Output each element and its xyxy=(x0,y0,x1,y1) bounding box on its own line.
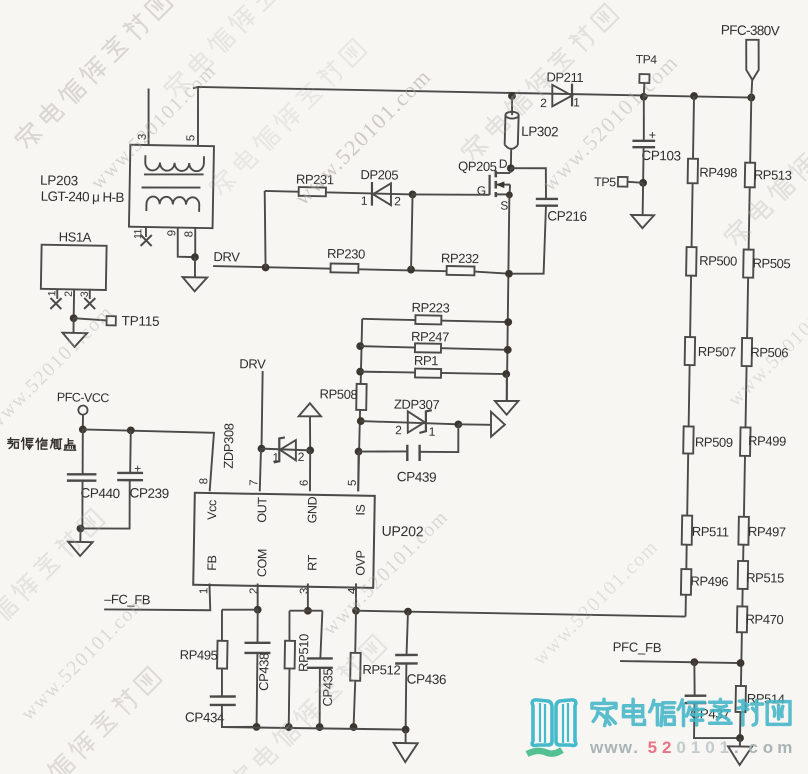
pin 7 UP202 xyxy=(248,480,260,486)
svg-text:0: 0 xyxy=(676,738,685,757)
svg-text:7: 7 xyxy=(248,480,260,486)
label RP495 xyxy=(180,647,218,663)
wire CP437 bottom xyxy=(694,703,741,739)
winding LP203 secondary xyxy=(146,196,199,211)
pin label 2 HS1A xyxy=(63,291,75,297)
capacitor CP239 xyxy=(117,473,143,481)
node CP439 branch xyxy=(355,448,363,456)
svg-text:RP511: RP511 xyxy=(692,524,729,540)
label UP202 xyxy=(381,523,423,540)
logo book icon xyxy=(532,700,576,746)
svg-text:1: 1 xyxy=(429,425,436,439)
resistor RP495 xyxy=(217,641,227,669)
svg-text:RP500: RP500 xyxy=(699,253,737,269)
svg-text:RP507: RP507 xyxy=(698,344,736,360)
node CP239 branch xyxy=(127,426,135,434)
resistor RP500 xyxy=(686,247,696,276)
wire PFC_FB xyxy=(620,661,740,663)
node PFC-VCC xyxy=(79,425,87,433)
svg-text:6: 6 xyxy=(299,480,311,486)
svg-text:OVP: OVP xyxy=(354,550,368,576)
wire ZDP308 span xyxy=(261,449,310,451)
wire CP438 riser xyxy=(256,610,259,643)
label HS1A xyxy=(59,229,92,245)
node ZDP308 left xyxy=(258,445,266,453)
svg-text:RP510: RP510 xyxy=(296,634,312,672)
pin 3 UP202 xyxy=(299,588,311,594)
node LP302 top xyxy=(508,92,516,100)
node PFC_FB right xyxy=(737,659,745,667)
wire pin7 riser xyxy=(260,449,261,492)
svg-text:RP515: RP515 xyxy=(746,570,784,586)
svg-text:DRV: DRV xyxy=(239,356,266,371)
label RP515 xyxy=(746,570,784,586)
block HS1A xyxy=(41,245,107,290)
wire pin2 riser xyxy=(256,583,259,609)
svg-text:PFC-380V: PFC-380V xyxy=(721,22,780,38)
X pin 11 xyxy=(141,235,152,246)
node CP436 branch xyxy=(404,608,412,616)
wire CP103 to TP5 xyxy=(642,147,645,183)
svg-text:w: w xyxy=(618,738,633,757)
label TP5 xyxy=(594,175,616,189)
pin 2 DP205 xyxy=(394,194,401,208)
svg-text:LGT-240 μ H-B: LGT-240 μ H-B xyxy=(41,189,125,205)
label DP211 xyxy=(546,69,583,85)
wire CP435 bottom xyxy=(319,668,321,727)
wire PFC-VCC to Vcc xyxy=(82,429,214,491)
wire right ground stub xyxy=(739,738,741,746)
svg-text:COM: COM xyxy=(255,549,269,577)
pin 1 DP211 xyxy=(573,95,580,109)
svg-text:1: 1 xyxy=(573,95,580,109)
wire HS1A ground stub xyxy=(72,318,74,333)
svg-text:CP439: CP439 xyxy=(397,469,437,485)
svg-text:c: c xyxy=(748,738,757,757)
ground bottom rail xyxy=(393,743,418,762)
label DRV 2 xyxy=(239,356,266,371)
svg-text:CP436: CP436 xyxy=(407,671,447,687)
svg-text:CP103: CP103 xyxy=(641,148,681,164)
node pin4 xyxy=(352,607,360,615)
wire CP239 bottom xyxy=(80,479,130,529)
node RP510 rail xyxy=(285,723,293,731)
label CP436 xyxy=(407,671,447,687)
wire DRV xyxy=(213,266,446,271)
svg-text:GND: GND xyxy=(305,496,319,523)
wire CP439 right xyxy=(420,424,459,453)
node TP5 xyxy=(639,179,647,187)
node pin2 xyxy=(254,606,262,614)
svg-text:.: . xyxy=(633,738,638,757)
pin 1 DP205 xyxy=(361,194,368,208)
node right ground xyxy=(736,734,744,742)
pin label 3 xyxy=(137,134,149,140)
node RP247 right xyxy=(504,346,512,354)
wire HS1A pin1 xyxy=(56,289,58,299)
pin 2 DP211 xyxy=(540,96,547,110)
label CP103 xyxy=(641,148,681,164)
node DRV right xyxy=(407,266,415,274)
label TP115 xyxy=(121,313,159,329)
pin 2 ZDP307 xyxy=(395,423,402,437)
wire RP510 riser xyxy=(289,611,290,641)
svg-text:RP223: RP223 xyxy=(411,300,449,316)
pin label OVP xyxy=(354,550,368,576)
wire RP247 xyxy=(360,346,508,350)
wire RP1 to arrow xyxy=(505,374,508,401)
resistor RP509 xyxy=(683,426,693,453)
resistor RP496 xyxy=(681,569,691,595)
svg-text:TP5: TP5 xyxy=(594,175,616,189)
wire ZDP307 branch xyxy=(361,421,459,424)
wire CP439 left xyxy=(359,451,408,453)
label TP4 xyxy=(636,52,658,66)
svg-text:CP216: CP216 xyxy=(547,208,587,224)
ground HS1A xyxy=(62,333,87,347)
node CP437 branch xyxy=(690,658,698,666)
label RP512 xyxy=(362,662,400,678)
label LP302 xyxy=(521,124,558,140)
svg-text:CP440: CP440 xyxy=(80,485,120,501)
label RP470 xyxy=(745,611,783,627)
svg-text:PFC_FB: PFC_FB xyxy=(613,639,662,655)
label fault-detect-point (Chinese) xyxy=(8,437,76,450)
svg-text:RP1: RP1 xyxy=(414,353,439,368)
connector PFC-380V xyxy=(745,40,759,98)
wire gate xyxy=(413,193,490,195)
node TP4 bus xyxy=(640,93,648,101)
diode DP211 xyxy=(552,83,572,106)
wire drain to CP216 xyxy=(510,168,546,199)
svg-text:3: 3 xyxy=(79,291,91,297)
wire ground stub PFC-VCC xyxy=(79,528,81,541)
wire pin 8 xyxy=(195,227,196,257)
resistor RP497 xyxy=(738,517,748,545)
op-amp U1 UP202 box xyxy=(193,493,375,588)
label RP507 xyxy=(698,344,736,360)
svg-text:ZDP308: ZDP308 xyxy=(221,423,237,469)
node PFC-380V entry xyxy=(747,94,755,102)
X HS1A pin1 xyxy=(50,298,61,309)
resistor RP515 xyxy=(738,561,748,589)
wire PFC-380V top bus xyxy=(193,87,751,98)
svg-text:RP513: RP513 xyxy=(754,167,792,183)
node pins 8-9 xyxy=(191,253,199,261)
svg-text:0: 0 xyxy=(705,738,714,757)
arrow up GND pin6 xyxy=(299,403,322,417)
svg-text:ZDP307: ZDP307 xyxy=(394,397,440,413)
svg-text:RP232: RP232 xyxy=(441,251,479,267)
wire RP512 bottom xyxy=(354,681,356,727)
svg-text:HS1A: HS1A xyxy=(59,229,92,245)
resistor RP470 xyxy=(737,606,747,632)
wire pin4 long xyxy=(356,611,686,617)
svg-text:8: 8 xyxy=(183,231,195,237)
svg-text:1: 1 xyxy=(46,290,58,296)
node ZDP307 out xyxy=(454,420,462,428)
resistor RP223 xyxy=(415,315,441,324)
svg-text:3: 3 xyxy=(299,588,311,594)
label RP508 xyxy=(319,386,357,402)
svg-text:RP509: RP509 xyxy=(695,434,733,450)
label RP232 xyxy=(441,251,479,267)
label PFC-380V xyxy=(721,22,780,38)
capacitor CP440 xyxy=(67,474,97,481)
label QP205 xyxy=(458,158,497,174)
svg-text:RP495: RP495 xyxy=(180,647,218,663)
svg-text:w: w xyxy=(589,738,604,757)
svg-text:11: 11 xyxy=(132,228,144,239)
svg-text:RP247: RP247 xyxy=(411,329,449,345)
node QP205 drain xyxy=(507,164,515,172)
label DP205 xyxy=(360,167,398,183)
resistor RP511 xyxy=(682,516,693,545)
wire bus to CP103 xyxy=(643,97,645,140)
wire DRV to ZDP308 xyxy=(261,371,263,449)
wire DRV riser xyxy=(263,191,267,268)
label RP510 xyxy=(296,634,312,672)
node RP1 left xyxy=(356,368,364,376)
label RP497 xyxy=(748,524,786,540)
ground TP5 xyxy=(631,215,654,228)
pin 1 ZDP308 xyxy=(272,451,279,465)
wire CP436 bottom xyxy=(405,663,407,729)
transistor QP205 xyxy=(489,168,511,198)
resistor RP512 xyxy=(350,653,360,681)
wire LP302 to QP205 drain xyxy=(510,149,512,168)
svg-text:2: 2 xyxy=(394,194,401,208)
ground LP203 xyxy=(182,277,207,291)
wire CP440 bottom xyxy=(82,481,84,529)
wire pin 3 stub xyxy=(148,88,150,145)
X HS1A pin3 xyxy=(84,298,95,309)
node RP512 rail xyxy=(350,723,358,731)
label PFC-VCC xyxy=(57,390,110,405)
label RP231 xyxy=(296,172,334,188)
node rail ground xyxy=(402,726,410,734)
capacitor CP439 xyxy=(407,445,420,462)
wire to right arrow xyxy=(458,423,491,426)
svg-text:D: D xyxy=(499,157,508,171)
label CP438 xyxy=(256,653,272,691)
node RP1 right xyxy=(502,370,510,378)
label RP1 xyxy=(414,353,439,368)
svg-text:S: S xyxy=(500,198,508,212)
label CP239 xyxy=(129,485,169,501)
wire to TP115 xyxy=(74,318,107,320)
label RP499 xyxy=(748,433,786,449)
zener ZDP308 xyxy=(274,437,297,463)
core line 1 xyxy=(144,173,204,175)
label RP513 xyxy=(754,167,792,183)
svg-text:2: 2 xyxy=(248,588,260,594)
svg-text:2: 2 xyxy=(662,738,671,757)
node QP205 source xyxy=(506,191,513,198)
test point TP115 xyxy=(107,316,116,325)
resistor RP513 xyxy=(745,163,755,188)
label G QP205 xyxy=(477,183,486,197)
pin label GND xyxy=(305,496,319,523)
pin label IS xyxy=(354,504,368,515)
label RP496 xyxy=(690,573,728,589)
label CP440 xyxy=(80,485,120,501)
svg-text:IS: IS xyxy=(354,504,368,515)
svg-text:CP434: CP434 xyxy=(185,710,225,726)
wire pin3 riser xyxy=(306,583,309,610)
capacitor CP103 plus xyxy=(649,128,656,142)
pin 1 ZDP307 xyxy=(429,425,436,439)
pin label FB xyxy=(205,555,219,570)
svg-text:m: m xyxy=(777,738,792,757)
label ZDP308 xyxy=(221,423,237,469)
ground PFC-VCC xyxy=(68,542,93,556)
resistor RP231 xyxy=(299,187,326,196)
resistor RP505 xyxy=(743,250,753,278)
svg-text:1: 1 xyxy=(361,194,368,208)
label RP223 xyxy=(411,300,449,316)
wire pin 5 riser xyxy=(197,87,199,146)
label RP505 xyxy=(752,256,790,272)
capacitor CP438 xyxy=(244,642,270,653)
svg-text:2: 2 xyxy=(63,291,75,297)
wire to ground LP203 xyxy=(194,257,197,277)
capacitor CP434 xyxy=(210,696,236,705)
svg-text:RP508: RP508 xyxy=(319,386,357,402)
terminal PFC-VCC xyxy=(78,405,87,414)
node CP438 rail xyxy=(253,723,261,731)
wire RP495 riser xyxy=(221,610,222,641)
label CP434 xyxy=(185,710,225,726)
svg-text:2: 2 xyxy=(395,423,402,437)
pin label 11 xyxy=(132,228,144,239)
label RP511 xyxy=(692,524,729,540)
svg-text:9: 9 xyxy=(166,230,178,236)
label CP439 xyxy=(397,469,437,485)
svg-text:FB: FB xyxy=(205,555,219,570)
svg-text:RP496: RP496 xyxy=(690,573,728,589)
label RP500 xyxy=(699,253,737,269)
label D QP205 xyxy=(499,157,508,171)
wire RP510 bottom xyxy=(288,669,289,727)
wire pin 9 xyxy=(177,227,195,257)
pin label RT xyxy=(305,554,319,571)
resistor RP232 xyxy=(447,266,475,275)
capacitor CP216 xyxy=(536,199,558,206)
label -FC_FB xyxy=(104,591,150,607)
label DRV xyxy=(213,249,240,264)
svg-text:5: 5 xyxy=(185,135,197,141)
wire bus to LP302 xyxy=(511,96,514,115)
wire CP216 to source rail xyxy=(509,205,546,274)
capacitor CP103 xyxy=(632,140,655,147)
svg-text:1: 1 xyxy=(720,738,729,757)
resistor RP499 xyxy=(740,427,750,456)
svg-text:OUT: OUT xyxy=(255,497,269,523)
resistor RP1 xyxy=(415,369,441,378)
svg-text:DP211: DP211 xyxy=(546,69,583,85)
wire pin 11 stub xyxy=(145,227,147,237)
label CP435 xyxy=(320,668,336,706)
svg-text:LP203: LP203 xyxy=(40,173,78,189)
label RP506 xyxy=(750,345,788,361)
wire RP1 xyxy=(360,372,506,375)
node DRV left xyxy=(262,263,270,271)
node DP205 out xyxy=(409,190,417,198)
node CP435 rail xyxy=(316,723,324,731)
core line 2 xyxy=(142,186,201,188)
resistor RP510 xyxy=(285,641,295,669)
pin 1 UP202 xyxy=(198,588,210,594)
pin label 9 xyxy=(166,230,178,236)
node left resistor column top xyxy=(690,92,698,100)
wire left column rail xyxy=(685,96,695,617)
svg-text:RP512: RP512 xyxy=(362,662,400,678)
wire RP231 branch xyxy=(265,191,413,194)
pin label COM xyxy=(255,549,269,577)
svg-text:1: 1 xyxy=(198,588,210,594)
wire PFC-VCC stub xyxy=(82,415,84,430)
label ZDP307 xyxy=(394,397,440,413)
node ground PFC-VCC xyxy=(77,525,85,533)
wire arrow to pin6 xyxy=(309,416,310,450)
wire right column rail xyxy=(740,98,751,739)
wire gate riser xyxy=(411,194,413,269)
transformer LP203 box xyxy=(129,145,214,228)
wire pin4 riser xyxy=(354,583,357,610)
pin 5 UP202 xyxy=(347,480,359,486)
svg-text:LP302: LP302 xyxy=(521,124,558,140)
svg-text:Vcc: Vcc xyxy=(205,500,219,520)
wire TP5 ground stub xyxy=(642,183,645,215)
test point TP5 xyxy=(618,177,643,187)
svg-text:.: . xyxy=(734,738,739,757)
ground right column xyxy=(728,746,752,765)
label RP247 xyxy=(411,329,449,345)
wire HS1A pin3 xyxy=(89,289,91,299)
svg-text:RP505: RP505 xyxy=(752,256,790,272)
svg-text:RP497: RP497 xyxy=(748,524,786,540)
wire pin2 left xyxy=(222,609,258,610)
wire CP437 riser xyxy=(694,662,695,695)
wire CP434 bottom xyxy=(222,705,257,728)
pin 2 UP202 xyxy=(248,588,260,594)
test point TP4 xyxy=(639,74,649,97)
node RP232 source junction xyxy=(505,270,513,278)
pin label OUT xyxy=(255,497,269,523)
label PFC_FB xyxy=(613,639,662,655)
wire HS1A pin2 xyxy=(73,289,76,318)
capacitor CP239 plus xyxy=(134,462,141,476)
wire RP512 riser xyxy=(354,611,357,653)
arrow down source rail xyxy=(495,401,519,415)
pin label 1 HS1A xyxy=(46,290,58,296)
wire rail ground stub xyxy=(404,730,406,744)
label LGT-240uH-B xyxy=(41,189,125,205)
node RP223 right xyxy=(504,318,512,326)
resistor RP247 xyxy=(415,343,441,352)
svg-text:8: 8 xyxy=(198,478,210,484)
resistor RP498 xyxy=(688,159,698,184)
resistor RP230 xyxy=(330,264,358,273)
svg-text:5: 5 xyxy=(648,738,657,757)
svg-text:1: 1 xyxy=(272,451,279,465)
wire pin5 riser xyxy=(357,452,360,492)
wire CP440 riser xyxy=(82,429,83,474)
svg-text:DP205: DP205 xyxy=(360,167,398,183)
node ZDP308 right xyxy=(306,446,314,454)
wire bottom rail xyxy=(222,726,406,730)
